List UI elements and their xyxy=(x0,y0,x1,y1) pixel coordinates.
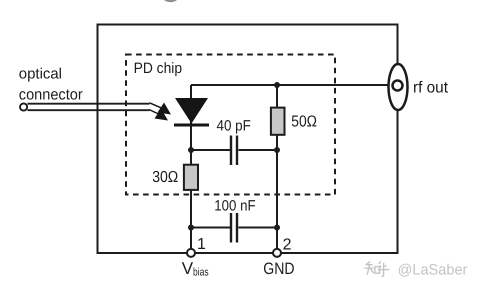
wire: 40pF row, right segment xyxy=(239,149,278,151)
resistor 30Ω xyxy=(184,165,198,190)
resistor 50Ω xyxy=(271,108,285,135)
PD chip dashed boundary xyxy=(126,55,335,195)
svg-text:connector: connector xyxy=(19,86,83,103)
svg-text:40 pF: 40 pF xyxy=(217,118,251,135)
svg-text:30Ω: 30Ω xyxy=(152,169,178,186)
rf out coaxial connector xyxy=(389,64,408,110)
svg-text:2: 2 xyxy=(283,236,292,253)
junction: 40pF row / left branch xyxy=(188,147,194,153)
junction: 100nF row / right branch xyxy=(274,225,280,231)
svg-text:optical: optical xyxy=(19,66,62,83)
optical connector ferrule xyxy=(20,103,27,110)
svg-text:GND: GND xyxy=(263,260,294,278)
wire: 100nF row, right segment xyxy=(239,227,278,229)
photodiode D1 xyxy=(174,98,209,125)
svg-text:@LaSaber: @LaSaber xyxy=(398,261,468,278)
svg-text:rf out: rf out xyxy=(413,80,449,97)
svg-text:100 nF: 100 nF xyxy=(214,198,255,215)
junction: 100nF row / left branch xyxy=(188,225,194,231)
capacitor C1 40 pF xyxy=(231,136,237,166)
svg-text:50Ω: 50Ω xyxy=(291,114,317,131)
terminal 1 (Vbias pin) xyxy=(187,249,195,257)
capacitor C2 100 nF xyxy=(231,213,237,243)
svg-text:Vbias: Vbias xyxy=(182,259,209,279)
terminal 2 (GND pin) xyxy=(273,249,281,257)
light ray arrows into photodiode xyxy=(149,103,171,121)
junction: 40pF row / right branch xyxy=(274,147,280,153)
wire: 40pF row, left segment xyxy=(191,149,230,151)
svg-text:PD chip: PD chip xyxy=(134,60,183,77)
junction: top rail / 50Ω branch xyxy=(274,82,280,88)
wire: right branch vertical (50Ω / GND) xyxy=(276,85,278,253)
wire: left branch vertical (photodiode / 30Ω / Vbias) xyxy=(190,85,192,253)
wire: 100nF row, left segment xyxy=(191,227,230,229)
svg-text:1: 1 xyxy=(197,236,206,253)
label: optical connector xyxy=(19,66,83,104)
fiber (double line) xyxy=(28,104,150,111)
enclosure box (module outline) xyxy=(98,25,398,254)
wire: top rail from photodiode cathode to rf out xyxy=(191,84,396,86)
watermark 知乎 @LaSaber xyxy=(365,262,390,277)
